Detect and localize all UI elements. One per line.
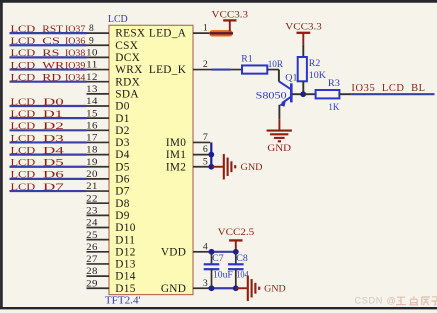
svg-text:C8: C8 — [236, 253, 248, 264]
net label LCD_D7 — [11, 182, 64, 193]
svg-text:D14: D14 — [115, 271, 135, 283]
net label LCD_D4 — [11, 145, 64, 156]
net label LCD_D6 — [11, 170, 64, 181]
svg-text:23: 23 — [86, 206, 98, 216]
svg-text:2: 2 — [203, 59, 208, 70]
svg-text:D9: D9 — [115, 210, 129, 222]
pin 27 D13 stub — [87, 263, 110, 265]
svg-text:LCD: LCD — [11, 170, 36, 181]
wire Q1 emitter to GND — [278, 105, 280, 119]
svg-text:D3: D3 — [43, 133, 64, 144]
svg-text:LCD: LCD — [11, 36, 36, 47]
wire GND net — [208, 287, 236, 289]
svg-text:IM1: IM1 — [166, 149, 186, 161]
svg-text:GND: GND — [241, 162, 263, 173]
transistor Q1 base bar — [290, 83, 293, 102]
svg-text:RST: RST — [42, 24, 63, 35]
pin 3 stub — [193, 287, 208, 289]
svg-text:RDX: RDX — [115, 76, 140, 88]
pin 22 D8 stub — [87, 202, 110, 204]
svg-text:D6: D6 — [115, 174, 129, 186]
wire net LCD_D4 — [10, 154, 87, 156]
ground GND (IM) bars sideways — [224, 154, 235, 179]
svg-text:LCD: LCD — [11, 158, 36, 169]
svg-text:D2: D2 — [115, 125, 129, 137]
wire LED_K — [212, 68, 231, 70]
svg-text:LCD: LCD — [11, 60, 36, 71]
capacitor C7 bottom pin — [211, 269, 213, 288]
svg-text:5: 5 — [203, 156, 208, 167]
svg-text:18: 18 — [86, 146, 98, 156]
svg-text:LCD: LCD — [11, 97, 36, 108]
pin 8 RESX stub — [87, 32, 110, 34]
transistor Q1 base lead — [292, 93, 303, 95]
svg-text:WR: WR — [42, 60, 65, 71]
transistor Q1 emitter with arrow — [282, 97, 291, 104]
svg-text:LCD: LCD — [108, 14, 128, 25]
svg-text:21: 21 — [86, 182, 98, 192]
pin 16 D2 stub — [87, 129, 110, 131]
svg-text:4: 4 — [203, 241, 208, 252]
svg-text:24: 24 — [86, 219, 98, 229]
net label LCD_D2 — [11, 121, 64, 132]
svg-text:RD: RD — [42, 73, 61, 84]
power port VCC3.3 (2) stem — [302, 33, 304, 45]
svg-text:D1: D1 — [115, 113, 129, 125]
svg-text:WRX: WRX — [115, 64, 142, 76]
pin 6 stub — [193, 154, 210, 156]
junction IM2 — [208, 164, 214, 170]
pin 7 stub — [193, 141, 210, 143]
svg-text:16: 16 — [86, 121, 98, 131]
svg-text:D0: D0 — [43, 97, 64, 108]
svg-text:D10: D10 — [115, 222, 135, 234]
svg-text:12: 12 — [86, 73, 98, 83]
svg-text:22: 22 — [86, 194, 98, 204]
svg-text:19: 19 — [86, 158, 98, 168]
svg-text:D13: D13 — [115, 259, 135, 271]
capacitor C8 plates — [228, 264, 244, 269]
junction VDD/C7 — [209, 249, 215, 255]
svg-text:10K: 10K — [309, 70, 326, 81]
svg-text:1K: 1K — [328, 102, 339, 113]
svg-text:D5: D5 — [43, 158, 64, 169]
svg-text:1: 1 — [203, 23, 208, 34]
junction GND/C8 — [233, 285, 239, 291]
pin 17 D3 stub — [87, 141, 110, 143]
svg-text:D7: D7 — [43, 182, 64, 193]
svg-text:LCD: LCD — [11, 109, 36, 120]
power port VCC3.3 (1) stem — [229, 20, 231, 31]
svg-text:LCD: LCD — [11, 182, 36, 193]
wire net LCD_WR — [10, 68, 87, 70]
highlighted wire LED_A (orange) — [213, 30, 230, 36]
pin 1 stub — [193, 32, 210, 34]
wire IM bus vertical — [210, 142, 212, 166]
svg-text:CSDN: CSDN — [355, 295, 383, 305]
wire net LCD_D6 — [10, 178, 87, 180]
wire net LCD_D3 — [10, 141, 87, 143]
wire net LCD_D5 — [10, 166, 87, 168]
svg-text:IO35 LCD BL: IO35 LCD BL — [351, 83, 425, 94]
wire net LCD_RD — [10, 81, 87, 83]
svg-text:LCD: LCD — [11, 24, 36, 35]
resistor R2 bottom pin — [302, 81, 304, 94]
pin 5 stub — [193, 166, 210, 168]
svg-text:D4: D4 — [43, 145, 64, 156]
svg-text:15: 15 — [86, 109, 98, 119]
svg-text:IM0: IM0 — [166, 137, 186, 149]
svg-text:SDA: SDA — [115, 88, 139, 100]
sheet border left — [0, 0, 3, 308]
ground GND (bottom) bars sideways — [248, 276, 259, 301]
pin 12 RDX stub — [87, 81, 110, 83]
svg-text:LCD: LCD — [11, 145, 36, 156]
svg-text:17: 17 — [86, 134, 98, 144]
junction GND/C7 — [209, 285, 215, 291]
svg-text:IO36: IO36 — [65, 36, 85, 47]
net label LCD_RS — [11, 48, 60, 59]
wire R1 to Q1 collector — [278, 70, 280, 82]
pin 4 stub — [193, 251, 208, 253]
ground GND bars — [267, 131, 292, 142]
svg-text:IO38: IO38 — [65, 48, 85, 59]
wire to GND symbol — [236, 287, 247, 289]
pin 21 D7 stub — [87, 190, 110, 192]
pin 19 D5 stub — [87, 166, 110, 168]
svg-text:VDD: VDD — [161, 246, 186, 258]
svg-text:D6: D6 — [43, 170, 64, 181]
svg-text:VCC3.3: VCC3.3 — [285, 22, 322, 33]
junction IM1 — [208, 152, 214, 158]
wire net LCD_D7 — [10, 190, 87, 192]
resistor R2 top pin — [302, 45, 304, 57]
svg-text:29: 29 — [86, 279, 98, 289]
capacitor C7 top pin — [211, 252, 213, 264]
pin 29 D15 stub — [87, 287, 110, 289]
pin 23 D9 stub — [87, 214, 110, 216]
sheet border top — [0, 0, 437, 3]
net label LCD_D5 — [11, 158, 64, 169]
svg-text:DCX: DCX — [115, 52, 140, 64]
svg-text:R3: R3 — [328, 78, 340, 89]
pin 9 CSX stub — [87, 44, 110, 46]
svg-text:25: 25 — [86, 231, 98, 241]
pin 24 D10 stub — [87, 227, 110, 229]
svg-text:6: 6 — [203, 144, 208, 155]
resistor R3 left pin — [303, 93, 315, 95]
pin 18 D4 stub — [87, 154, 110, 156]
pin 11 WRX stub — [87, 69, 110, 71]
svg-text:D2: D2 — [43, 121, 64, 132]
svg-text:VCC2.5: VCC2.5 — [218, 227, 255, 238]
svg-text:D4: D4 — [115, 149, 129, 161]
net label LCD_D3 — [11, 133, 64, 144]
svg-text:R2: R2 — [309, 58, 321, 69]
svg-text:10R: 10R — [268, 59, 284, 70]
transistor Q1 collector diagonal — [279, 81, 291, 89]
junction VDD/C8 — [233, 249, 239, 255]
svg-text:RS: RS — [42, 48, 59, 59]
resistor R3 body — [316, 90, 340, 98]
svg-text:IO34: IO34 — [65, 73, 85, 84]
svg-text:D11: D11 — [115, 234, 135, 246]
pin 25 D11 stub — [87, 239, 110, 241]
resistor R3 right pin — [339, 93, 351, 95]
capacitor C8 top pin — [235, 252, 237, 264]
wire net LCD_CS — [10, 44, 87, 46]
svg-text:S8050: S8050 — [256, 91, 287, 102]
svg-text:CS: CS — [42, 36, 60, 47]
svg-text:C7: C7 — [212, 253, 224, 264]
svg-text:Q1: Q1 — [285, 72, 297, 83]
svg-text:10uF: 10uF — [213, 270, 233, 281]
resistor R2 body — [298, 57, 307, 81]
svg-text:D5: D5 — [115, 161, 129, 173]
pin 13 SDA stub — [87, 93, 110, 95]
power port VCC2.5 stem — [235, 240, 237, 251]
svg-text:11: 11 — [86, 61, 98, 71]
svg-text:D7: D7 — [115, 186, 129, 198]
svg-text:28: 28 — [86, 267, 98, 277]
net label LCD_RD — [11, 73, 62, 84]
wire net LCD_D1 — [10, 117, 87, 119]
net label LCD_WR — [11, 60, 65, 71]
svg-text:8: 8 — [89, 24, 94, 34]
capacitor C7 plates — [204, 264, 220, 269]
svg-text:LED_K: LED_K — [149, 64, 187, 76]
wire IM2 to GND — [212, 166, 223, 168]
power port VCC3.3 (2) bar — [297, 32, 311, 34]
svg-text:D3: D3 — [115, 137, 129, 149]
svg-text:D8: D8 — [115, 198, 129, 210]
svg-text:D15: D15 — [115, 283, 135, 295]
resistor R1 body — [242, 65, 267, 73]
svg-text:IO39: IO39 — [65, 60, 85, 71]
sheet border bottom — [0, 307, 437, 309]
junction node Q1/R2/R3 — [300, 91, 306, 97]
svg-text:IO37: IO37 — [65, 24, 85, 35]
svg-text:LCD: LCD — [11, 48, 36, 59]
power port VCC2.5 bar — [229, 239, 242, 241]
svg-text:GND: GND — [267, 143, 291, 154]
svg-text:CSX: CSX — [115, 40, 138, 52]
svg-text:LED_A: LED_A — [149, 28, 187, 40]
svg-text:RESX: RESX — [115, 28, 145, 40]
resistor R1 right pin — [267, 69, 279, 71]
wire net LCD_RST — [10, 32, 87, 34]
svg-text:14: 14 — [86, 97, 98, 107]
pin 10 DCX stub — [87, 56, 110, 58]
svg-text:3: 3 — [203, 278, 208, 289]
wire IO35_LCD_BL — [351, 93, 434, 95]
pin 20 D6 stub — [87, 178, 110, 180]
IC U? LCD TFT2.4 body — [109, 25, 193, 294]
capacitor C8 bottom pin — [235, 269, 237, 288]
svg-text:LCD: LCD — [11, 133, 36, 144]
svg-text:26: 26 — [86, 243, 98, 253]
svg-text:D1: D1 — [43, 109, 63, 120]
net label LCD_CS — [11, 36, 60, 47]
svg-text:@: @ — [387, 295, 396, 305]
net label LCD_RST — [11, 24, 64, 35]
wire LED_A — [210, 32, 233, 34]
wire net LCD_D0 — [10, 105, 87, 107]
svg-text:GND: GND — [264, 284, 286, 295]
svg-text:20: 20 — [86, 170, 98, 180]
wire VDD — [208, 251, 236, 253]
watermark CJK glyphs — [396, 296, 437, 305]
svg-text:LCD: LCD — [11, 73, 36, 84]
power port VCC3.3 (1) bar — [223, 19, 236, 21]
resistor R1 left pin — [231, 69, 242, 71]
svg-text:LCD: LCD — [11, 121, 36, 132]
svg-text:27: 27 — [86, 255, 98, 265]
svg-text:R1: R1 — [241, 54, 252, 65]
pin 15 D1 stub — [87, 117, 110, 119]
svg-text:VCC3.3: VCC3.3 — [212, 10, 249, 21]
wire net LCD_RS — [10, 56, 87, 58]
svg-text:TFT2.4': TFT2.4' — [105, 295, 141, 306]
svg-text:7: 7 — [203, 132, 208, 143]
svg-text:IM2: IM2 — [166, 161, 186, 173]
pin 28 D14 stub — [87, 275, 110, 277]
pin 26 D12 stub — [87, 251, 110, 253]
net label LCD_D1 — [11, 109, 63, 120]
ground GND (under Q1) stem — [278, 119, 280, 130]
pin 2 stub — [193, 69, 212, 71]
net label LCD_D0 — [11, 97, 64, 108]
svg-text:D12: D12 — [115, 246, 135, 258]
svg-text:D0: D0 — [115, 101, 129, 113]
svg-text:GND: GND — [161, 283, 186, 295]
svg-text:13: 13 — [86, 85, 98, 95]
svg-text:9: 9 — [89, 36, 94, 46]
pin 14 D0 stub — [87, 105, 110, 107]
svg-text:10: 10 — [86, 49, 98, 59]
wire net LCD_D2 — [10, 129, 87, 131]
